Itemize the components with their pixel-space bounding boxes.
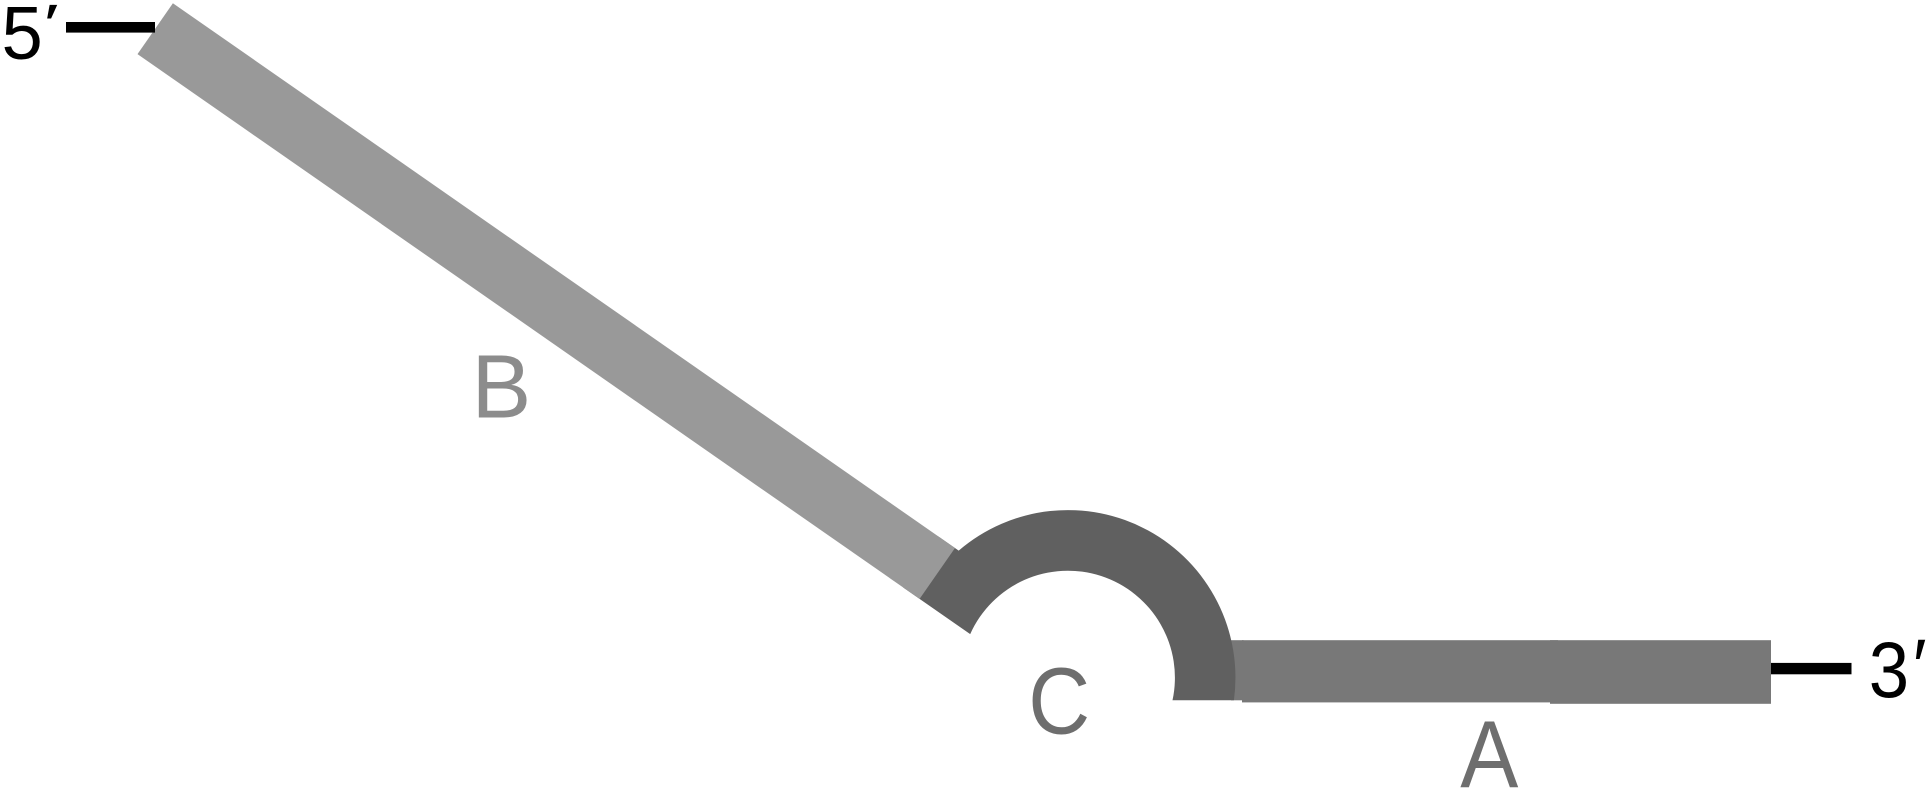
- svg-text:3: 3: [1869, 626, 1909, 715]
- 5' end line: [66, 22, 155, 33]
- 3' end line: [1771, 663, 1852, 674]
- strand B (diagonal bar): [138, 3, 956, 599]
- svg-text:5: 5: [2, 0, 43, 75]
- svg-text:′: ′: [1913, 623, 1927, 709]
- svg-text:A: A: [1460, 702, 1518, 792]
- svg-text:B: B: [472, 336, 532, 437]
- loop C (dark arc annulus with straight extension): [903, 510, 1235, 700]
- svg-text:′: ′: [44, 0, 59, 54]
- strand A segment right rect: [1550, 640, 1771, 704]
- svg-text:C: C: [1028, 649, 1090, 755]
- strand A stub under loop end: [1231, 640, 1244, 700]
- strand A segment left rect: [1242, 640, 1558, 702]
